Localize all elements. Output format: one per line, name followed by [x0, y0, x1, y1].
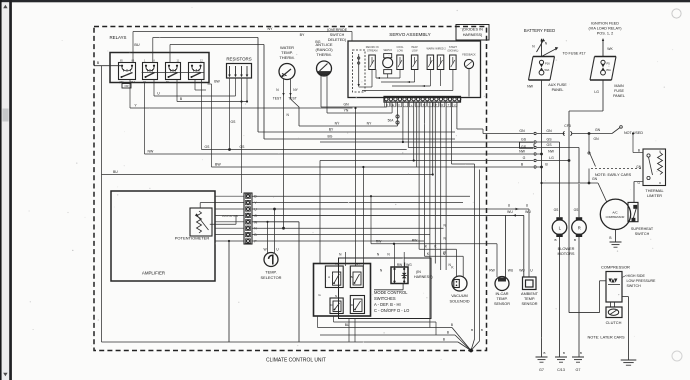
mode box feed wires [345, 252, 347, 266]
connector CF3 [563, 131, 564, 135]
not used switch [612, 128, 620, 134]
servo switch cool-low [397, 55, 404, 70]
svg-text:WU: WU [507, 210, 513, 214]
ac compressor [600, 199, 630, 229]
down wire right A [451, 102, 453, 164]
svg-text:B: B [609, 236, 611, 240]
svg-text:B: B [351, 275, 353, 279]
servo pin verticals N [440, 102, 442, 270]
svg-text:A/C: A/C [612, 211, 618, 215]
wire GS to left blower [402, 102, 404, 142]
svg-text:B: B [451, 323, 453, 327]
svg-text:SWITCH: SWITCH [627, 284, 642, 288]
wire W down to bus [298, 222, 300, 342]
wire BG top [170, 44, 264, 46]
mode box down wires [348, 319, 350, 343]
aux fuse panel [533, 56, 555, 58]
connector B wire [252, 234, 430, 236]
servo feedback pot [464, 59, 473, 68]
svg-text:GS: GS [231, 120, 237, 124]
wire K2 [424, 102, 426, 256]
superheat switch [628, 202, 638, 221]
svg-text:B: B [580, 351, 582, 355]
svg-text:STREAM: STREAM [367, 49, 377, 52]
svg-text:RW: RW [489, 269, 495, 273]
connector D wire [252, 195, 470, 197]
amplifier to connector wires [215, 195, 244, 197]
scrollbar up arrow [3, 5, 7, 8]
relay 2 [143, 63, 158, 80]
connector Y wire [252, 202, 463, 204]
svg-text:NY: NY [268, 27, 274, 31]
svg-text:MOTORS: MOTORS [557, 251, 574, 256]
svg-text:GN: GN [636, 165, 641, 169]
svg-text:AUX FUSE: AUX FUSE [548, 83, 567, 87]
down wire right B [453, 102, 455, 112]
anti-ice leads [320, 75, 322, 107]
pressure switch diodes [609, 279, 613, 283]
in-car sensor leads [496, 244, 498, 277]
svg-text:NY: NY [336, 262, 340, 266]
mode control switch bank [314, 264, 371, 317]
svg-text:LIMITER: LIMITER [647, 194, 662, 198]
wire GN servo [321, 106, 387, 108]
to fuse 17 branch [542, 49, 557, 57]
wire U [153, 80, 155, 97]
svg-text:B: B [554, 238, 556, 242]
svg-text:GS: GS [546, 138, 552, 142]
svg-text:G7: G7 [539, 368, 544, 372]
svg-text:SENSOR: SENSOR [494, 302, 510, 306]
wire Y [129, 80, 131, 109]
servo pin vertical to bus [429, 102, 431, 328]
svg-text:BU: BU [113, 170, 118, 174]
svg-text:SERVO: SERVO [383, 49, 392, 52]
clutch feed wire [569, 312, 600, 314]
mode switch D [350, 296, 364, 314]
svg-text:GN: GN [519, 129, 525, 133]
svg-text:NOTE: EARLY CARS: NOTE: EARLY CARS [595, 173, 632, 177]
connector G wire stub [251, 214, 253, 216]
svg-text:G: G [523, 156, 526, 160]
svg-text:THERMAL: THERMAL [645, 189, 663, 193]
svg-text:B: B [563, 351, 565, 355]
relay bank box [110, 53, 209, 83]
connector W wire [252, 221, 299, 223]
wire YN servo [327, 112, 392, 114]
svg-text:TEST: TEST [273, 97, 281, 101]
servo switch start [450, 55, 457, 70]
svg-text:RESISTORS: RESISTORS [226, 57, 251, 62]
relay common bus [142, 71, 205, 73]
svg-text:CLIMATE CONTROL UNIT: CLIMATE CONTROL UNIT [266, 358, 326, 364]
svg-text:TO FUSE #17: TO FUSE #17 [562, 52, 585, 56]
svg-text:COMPRESSOR: COMPRESSOR [606, 215, 625, 219]
wire to mode box left [319, 161, 321, 264]
svg-text:NY: NY [335, 122, 340, 126]
ignition feed lead [602, 40, 604, 57]
svg-text:NOTE: LATER CARS: NOTE: LATER CARS [587, 335, 625, 340]
svg-text:GS: GS [521, 145, 527, 149]
servo pin vertical to mode box [434, 102, 436, 264]
svg-text:WU: WU [525, 210, 531, 214]
svg-text:U: U [454, 104, 456, 107]
wire K1 [418, 102, 420, 249]
relay 1 [119, 63, 136, 80]
pot wiper wire to G row [210, 223, 236, 225]
wire BG middle [264, 138, 455, 140]
svg-text:WIRED 2: WIRED 2 [435, 48, 446, 51]
clutch connector stubs [610, 302, 612, 307]
battery feed wire down to ground [541, 80, 543, 357]
svg-text:(IN: (IN [416, 270, 421, 274]
svg-text:WARM: WARM [426, 48, 434, 51]
svg-text:THERM.: THERM. [279, 55, 294, 60]
svg-text:NW: NW [527, 85, 534, 89]
svg-text:BG: BG [315, 40, 320, 44]
anti-ice thermostat [317, 61, 332, 76]
svg-text:A - DEF. B - HI: A - DEF. B - HI [374, 302, 401, 307]
servo internal wiring [359, 86, 372, 88]
svg-text:RELAYS: RELAYS [109, 35, 126, 40]
wire Y to mode switch [355, 108, 357, 266]
svg-text:G: G [254, 214, 257, 218]
wire BY top [153, 37, 258, 39]
svg-text:TEMP.: TEMP. [265, 270, 276, 275]
svg-text:50A: 50A [388, 119, 395, 123]
servo dashed section [353, 50, 366, 92]
mode box bottom wire [333, 316, 335, 322]
svg-text:A: A [328, 275, 330, 279]
svg-text:AMPLIFIER: AMPLIFIER [142, 271, 165, 276]
svg-text:B: B [443, 337, 445, 341]
svg-text:50A: 50A [545, 68, 550, 72]
svg-text:BU: BU [134, 43, 140, 47]
superheat feed wire [634, 181, 643, 183]
wire GS band [201, 80, 203, 150]
servo motor [383, 58, 393, 68]
left bus wire [101, 66, 103, 342]
svg-text:GS: GS [205, 145, 211, 149]
wire B relay stub [94, 65, 122, 67]
ambient temp sensor [523, 277, 537, 290]
svg-text:PANEL: PANEL [552, 88, 564, 92]
svg-text:BY: BY [300, 33, 305, 37]
svg-text:NW: NW [148, 149, 155, 153]
wire GS to right blower [407, 102, 409, 148]
svg-text:CLUTCH: CLUTCH [606, 320, 622, 325]
svg-text:POTENTIOMETER: POTENTIOMETER [175, 236, 210, 241]
scrollbar thumb [2, 109, 8, 122]
wire BW to mode switch [362, 167, 364, 266]
svg-text:B: B [544, 351, 546, 355]
svg-text:GS: GS [240, 145, 246, 149]
scan speckle [232, 61, 233, 62]
early cars switch [588, 134, 590, 152]
svg-text:B: B [574, 238, 576, 242]
svg-text:VACUUM: VACUUM [451, 293, 468, 298]
svg-text:R: R [441, 104, 443, 107]
connector breaks on crossing wires [533, 132, 537, 135]
wire RW row [370, 196, 372, 244]
svg-text:GS: GS [574, 208, 580, 212]
svg-text:SWITCHES: SWITCHES [374, 296, 396, 301]
wire LG [413, 102, 415, 161]
faint UI circle bottom right [672, 351, 682, 361]
svg-text:SERVO ASSEMBLY: SERVO ASSEMBLY [389, 32, 430, 37]
svg-text:PANEL: PANEL [613, 94, 625, 98]
in-car temp sensor [495, 277, 509, 291]
svg-text:D: D [351, 303, 353, 307]
page divider line [9, 0, 12, 380]
potentiometer [190, 208, 212, 236]
svg-text:SENSOR: SENSOR [521, 302, 537, 306]
svg-text:TH: TH [166, 81, 169, 84]
wire P row down to bus [228, 241, 230, 342]
relay 4 [189, 63, 205, 80]
ground C13 [555, 356, 567, 358]
svg-text:G7: G7 [576, 368, 581, 372]
thermal limiter [643, 149, 666, 186]
svg-text:GS: GS [521, 138, 527, 142]
wire GN main feed [456, 102, 458, 129]
svg-text:BW: BW [214, 80, 220, 84]
svg-text:(VIA LOAD RELAY): (VIA LOAD RELAY) [588, 27, 622, 31]
svg-text:SOLENOID: SOLENOID [449, 299, 469, 304]
svg-text:LOW: LOW [412, 49, 418, 52]
svg-text:WK: WK [607, 47, 613, 51]
thermal limiter stubs [633, 152, 643, 154]
svg-text:RW: RW [412, 239, 418, 243]
scrollbar track [2, 2, 10, 380]
svg-text:RW: RW [397, 263, 402, 267]
svg-text:LG: LG [594, 90, 599, 94]
connector P wire [252, 240, 424, 242]
svg-text:B: B [638, 149, 640, 153]
svg-text:TEST: TEST [288, 97, 296, 101]
svg-text:CF3: CF3 [564, 124, 571, 128]
top browser bar [0, 0, 690, 2]
svg-text:BW: BW [215, 162, 221, 166]
svg-text:P16: P16 [545, 62, 550, 66]
ground junction dot [469, 349, 473, 353]
blower motor right [578, 148, 580, 218]
svg-text:C - ON/OFF D - LO: C - ON/OFF D - LO [374, 308, 409, 313]
faint UI circle top right [672, 9, 681, 18]
svg-text:SWITCH: SWITCH [635, 232, 650, 236]
wire BY middle [258, 131, 455, 133]
mode inner box [339, 258, 432, 319]
mode switch B [350, 266, 363, 288]
servo connector strip [384, 96, 461, 102]
water therm leads [283, 79, 285, 99]
svg-text:BG: BG [328, 135, 333, 139]
svg-text:THERM.: THERM. [316, 52, 331, 57]
connector N wire [252, 227, 444, 229]
svg-text:GN: GN [546, 129, 552, 133]
LG feed wire down to clutch [568, 111, 570, 313]
svg-text:HIGH SIDE: HIGH SIDE [627, 274, 646, 278]
svg-text:GN: GN [595, 128, 601, 132]
svg-text:SWITCH: SWITCH [330, 33, 345, 37]
svg-text:COMPRESSOR: COMPRESSOR [601, 265, 630, 270]
svg-text:NW: NW [519, 149, 526, 153]
servo switch wired-2 [437, 55, 444, 70]
svg-text:NY: NY [356, 262, 360, 266]
svg-text:(SIGNAL): (SIGNAL) [447, 49, 458, 52]
svg-text:GN: GN [594, 137, 600, 141]
wire BW left leg [208, 83, 212, 85]
diode box bottom wire [402, 284, 404, 290]
ground G7 right [572, 356, 584, 358]
resistors box [227, 64, 252, 79]
servo assembly box [348, 41, 481, 98]
wire NY middle [291, 99, 300, 126]
relay 3 [166, 63, 181, 80]
svg-text:P5: P5 [607, 62, 611, 66]
svg-text:FEEDBACK: FEEDBACK [462, 53, 476, 56]
svg-text:GN: GN [592, 177, 598, 181]
svg-text:NW: NW [548, 149, 555, 153]
svg-text:TEMP.: TEMP. [496, 297, 507, 301]
climate control unit dashed border [94, 27, 487, 351]
svg-text:WG: WG [406, 263, 412, 267]
servo switch heat-low [411, 55, 418, 70]
mode switch C [330, 298, 343, 314]
svg-text:B: B [471, 328, 473, 332]
battery feed arrows [541, 39, 543, 57]
wire WU with arrow [252, 214, 506, 216]
scrollbar down arrow [3, 373, 7, 376]
ground G7 left [536, 356, 548, 358]
svg-text:C/13: C/13 [557, 368, 565, 372]
svg-text:SUPERHEAT: SUPERHEAT [631, 227, 654, 231]
relay aux contact box [122, 84, 131, 89]
servo switch recirc [369, 55, 376, 70]
wire U with arrow [252, 208, 529, 210]
svg-text:N: N [335, 294, 337, 298]
wire NW left leg [144, 83, 146, 155]
clutch [606, 307, 622, 318]
svg-text:TEMP.: TEMP. [524, 297, 535, 301]
in-harness diode box [391, 267, 408, 284]
compressor ground [615, 230, 617, 243]
bottom bus 1 [318, 327, 453, 329]
svg-text:IGNITION FEED: IGNITION FEED [591, 22, 619, 26]
svg-text:YN: YN [344, 109, 349, 113]
vacuum solenoid [455, 249, 457, 276]
blower motor left [559, 142, 561, 217]
svg-text:GN: GN [343, 103, 349, 107]
svg-text:IN-CAR: IN-CAR [495, 292, 508, 296]
svg-text:HARNESS): HARNESS) [463, 33, 483, 37]
svg-text:NY: NY [367, 122, 372, 126]
svg-text:GS: GS [554, 208, 560, 212]
svg-text:GS: GS [546, 143, 552, 147]
mode switch A [325, 266, 343, 288]
main fuse wire [602, 80, 604, 111]
svg-text:OR: OR [125, 84, 129, 88]
svg-text:POS. 1, 2: POS. 1, 2 [597, 32, 613, 36]
svg-text:WU: WU [519, 269, 525, 273]
svg-text:R: R [578, 226, 581, 231]
pressure switch box [606, 272, 622, 303]
water temp thermostat [279, 64, 295, 80]
svg-text:NY: NY [293, 88, 298, 92]
svg-text:LG: LG [549, 156, 554, 160]
main fuse parallelogram [595, 56, 617, 58]
pot top wire to Y row [199, 203, 201, 208]
temp selector [264, 253, 278, 267]
svg-text:B: B [481, 328, 483, 332]
svg-text:35A: 35A [606, 68, 611, 72]
wire NY top [133, 31, 352, 33]
wire N from water therm [283, 99, 285, 228]
svg-text:WU: WU [508, 269, 514, 273]
svg-text:SELECTOR: SELECTOR [261, 275, 282, 280]
svg-text:MODE CONTROL: MODE CONTROL [374, 290, 408, 295]
svg-text:LOW: LOW [397, 49, 403, 52]
wire BU [102, 174, 433, 176]
svg-text:B: B [447, 330, 449, 334]
servo switch warm [427, 55, 434, 70]
diodes-in-harness note box [456, 25, 489, 41]
bottom bus 3 [102, 341, 459, 343]
svg-text:BATTERY FEED: BATTERY FEED [524, 28, 555, 33]
bottom bus 2 [320, 334, 455, 336]
svg-text:(DIODES IN: (DIODES IN [462, 28, 483, 32]
wire B to ground [416, 102, 418, 167]
svg-text:AMBIENT: AMBIENT [521, 292, 539, 296]
left black edge [0, 0, 2, 380]
amplifier connector strip [244, 193, 252, 244]
amplifier box [111, 191, 215, 281]
compressor ground later [622, 296, 629, 298]
pressure switch feed [600, 280, 607, 282]
wire NW [145, 153, 542, 155]
svg-text:MAIN: MAIN [614, 84, 624, 88]
wire B horizontal [176, 80, 178, 102]
svg-text:FUSE: FUSE [614, 89, 624, 93]
svg-text:C: C [330, 303, 332, 307]
inline fuse 50A [397, 102, 399, 126]
svg-text:LOW PRESSURE: LOW PRESSURE [627, 279, 657, 283]
